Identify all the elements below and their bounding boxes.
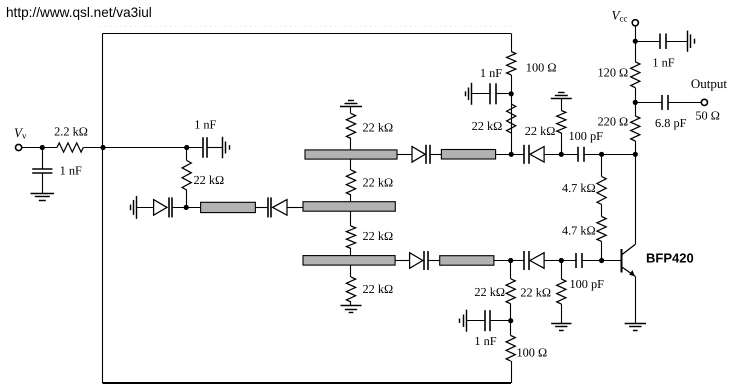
svg-text:22 kΩ: 22 kΩ	[363, 176, 394, 190]
ground	[471, 83, 473, 105]
junction	[633, 100, 638, 105]
wire	[561, 261, 563, 280]
capacitor C7 100pF	[577, 147, 579, 162]
wire	[544, 260, 576, 262]
wire	[584, 154, 635, 156]
wire	[350, 211, 352, 226]
ground	[551, 98, 572, 100]
wire	[186, 190, 188, 207]
junction	[509, 91, 514, 96]
svg-text:BFP420: BFP420	[646, 250, 694, 265]
wire	[635, 41, 660, 43]
wire	[601, 205, 603, 217]
wire	[510, 261, 512, 279]
node Vcc terminal	[632, 20, 638, 26]
ground	[466, 310, 468, 332]
svg-text:22 kΩ: 22 kΩ	[363, 282, 394, 296]
wire	[207, 147, 222, 149]
capacitor C9 1nF	[489, 83, 491, 104]
wire	[350, 195, 352, 202]
junction	[508, 258, 513, 263]
wire	[544, 154, 578, 156]
capacitor	[523, 145, 525, 164]
svg-text:1 nF: 1 nF	[60, 164, 82, 178]
junction	[184, 205, 189, 210]
svg-text:Output: Output	[691, 76, 728, 91]
junction	[184, 145, 189, 150]
svg-text:2.2 kΩ: 2.2 kΩ	[54, 125, 88, 139]
wire	[255, 207, 267, 209]
wire	[511, 34, 513, 52]
capacitor C8 100pF	[575, 253, 577, 268]
wire	[561, 304, 563, 323]
wire	[287, 207, 303, 209]
ground	[340, 106, 362, 108]
wire	[635, 276, 637, 323]
diode D5	[410, 253, 423, 269]
wire	[103, 33, 512, 35]
svg-text:4.7 kΩ: 4.7 kΩ	[562, 181, 596, 195]
transistor Q1 emitter arrow	[629, 270, 635, 276]
wire	[397, 154, 412, 156]
junction	[508, 318, 513, 323]
node Output terminal	[701, 99, 707, 105]
wire	[395, 260, 410, 262]
svg-text:100 Ω: 100 Ω	[517, 346, 548, 360]
diode D1	[154, 200, 167, 216]
label url	[6, 5, 152, 20]
ground	[687, 31, 689, 52]
wire	[350, 139, 352, 151]
wire	[350, 159, 352, 170]
wire	[102, 34, 104, 384]
wire	[350, 107, 352, 114]
svg-text:6.8 pF: 6.8 pF	[655, 116, 687, 130]
resistor R4 22k	[346, 170, 355, 195]
ground	[136, 196, 138, 219]
wire	[602, 260, 621, 262]
wire	[635, 141, 637, 244]
wire	[496, 154, 525, 156]
wire	[467, 320, 486, 322]
svg-text:22 kΩ: 22 kΩ	[520, 286, 551, 300]
wire	[42, 148, 44, 169]
svg-text:22 kΩ: 22 kΩ	[474, 285, 505, 299]
wire	[601, 154, 603, 176]
wire	[472, 93, 490, 95]
ground	[31, 193, 55, 195]
resistor R5 22k	[346, 226, 355, 249]
svg-text:100 Ω: 100 Ω	[526, 60, 557, 74]
svg-text:22 kΩ: 22 kΩ	[363, 121, 394, 135]
microstrip line	[303, 202, 395, 212]
wire	[582, 260, 601, 262]
wire	[22, 147, 58, 149]
wire	[350, 249, 352, 256]
svg-text:100 pF: 100 pF	[569, 129, 604, 143]
resistor R16 22k	[557, 279, 566, 304]
transistor Q1 emitter	[622, 267, 635, 276]
resistor R13 220	[631, 116, 640, 141]
ground	[625, 323, 646, 325]
node Vv terminal	[16, 144, 22, 150]
resistor R3 22k	[346, 114, 355, 139]
wire	[511, 75, 513, 154]
resistor R9 22k	[557, 111, 566, 134]
svg-text:120 Ω: 120 Ω	[598, 65, 629, 79]
capacitor C10 1nF	[484, 310, 486, 331]
diode D4	[530, 147, 544, 163]
microstrip line	[303, 256, 395, 266]
resistor R2 22k	[182, 161, 191, 191]
wire	[496, 93, 511, 95]
resistor R7 100	[507, 52, 516, 76]
svg-text:1 nF: 1 nF	[194, 118, 216, 132]
capacitor	[168, 197, 170, 217]
junction	[633, 39, 638, 44]
wire	[83, 147, 186, 149]
capacitor	[267, 197, 269, 217]
resistor R8 22k	[507, 104, 516, 133]
wire	[561, 133, 563, 154]
wire	[350, 302, 352, 306]
capacitor C1 1nF	[32, 168, 52, 170]
svg-text:Vv: Vv	[14, 125, 27, 141]
microstrip line	[305, 150, 397, 159]
ground	[222, 137, 224, 159]
junction	[599, 152, 604, 157]
wire	[428, 260, 440, 262]
wire	[42, 173, 44, 193]
wire	[494, 260, 525, 262]
junction	[599, 258, 604, 263]
wire	[511, 361, 513, 383]
wire	[187, 147, 203, 149]
resistor R12 120	[631, 62, 640, 88]
svg-text:1 nF: 1 nF	[652, 55, 674, 69]
wire	[601, 242, 603, 261]
resistor R15 100	[506, 336, 515, 362]
microstrip line	[440, 256, 494, 266]
svg-text:22 kΩ: 22 kΩ	[363, 229, 394, 243]
svg-text:1 nF: 1 nF	[474, 334, 496, 348]
diode D6	[530, 253, 544, 269]
diode D3	[412, 147, 425, 163]
diode D2	[273, 200, 287, 216]
capacitor C2 1nF	[202, 137, 204, 158]
svg-text:50 Ω: 50 Ω	[695, 108, 720, 122]
svg-text:100 pF: 100 pF	[570, 277, 605, 291]
capacitor C11 1nF	[659, 33, 661, 49]
wire	[668, 102, 701, 104]
wire	[350, 265, 352, 277]
junction	[633, 152, 638, 157]
microstrip line	[441, 150, 495, 160]
svg-text:22 kΩ: 22 kΩ	[194, 173, 225, 187]
junction	[559, 258, 564, 263]
wire	[100, 26, 514, 28]
svg-text:1 nF: 1 nF	[480, 66, 502, 80]
wire	[103, 382, 512, 384]
svg-text:22 kΩ: 22 kΩ	[472, 119, 503, 133]
svg-text:4.7 kΩ: 4.7 kΩ	[562, 224, 596, 238]
wire	[561, 99, 563, 111]
wire	[137, 207, 154, 209]
capacitor	[523, 251, 525, 270]
wire	[635, 26, 637, 62]
svg-text:22 kΩ: 22 kΩ	[525, 124, 556, 138]
capacitor	[425, 145, 427, 164]
wire	[172, 207, 200, 209]
svg-text:Vcc: Vcc	[612, 7, 628, 23]
junction	[559, 152, 564, 157]
resistor R14 22k	[506, 279, 515, 304]
junction	[100, 145, 105, 150]
ground	[341, 305, 362, 307]
resistor R11 4.7k	[597, 217, 606, 242]
wire	[635, 88, 637, 116]
wire	[490, 320, 511, 322]
svg-text:220 Ω: 220 Ω	[598, 115, 629, 129]
wire	[430, 154, 441, 156]
wire	[635, 102, 662, 104]
resistor R1 2.2k	[57, 143, 83, 152]
transistor Q1 base bar	[620, 249, 622, 272]
wire	[510, 304, 512, 336]
microstrip line	[201, 202, 256, 212]
junction	[509, 152, 514, 157]
wire	[186, 148, 188, 161]
resistor R10 4.7k	[597, 177, 606, 205]
transistor Q1 collector	[622, 244, 635, 254]
wire	[666, 41, 687, 43]
capacitor C12 6.8pF	[661, 95, 663, 110]
resistor R6 22k	[346, 277, 355, 302]
capacitor	[423, 251, 425, 270]
junction	[40, 145, 45, 150]
ground	[551, 323, 571, 325]
